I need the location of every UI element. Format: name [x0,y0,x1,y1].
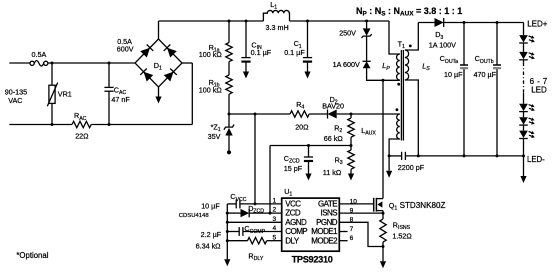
svg-text:0.1 µF: 0.1 µF [284,48,305,57]
svg-text:11 kΩ: 11 kΩ [323,168,342,177]
svg-text:VAC: VAC [8,96,22,105]
svg-text:DLY: DLY [285,236,300,245]
svg-text:20Ω: 20Ω [295,123,309,132]
svg-text:1A 600V: 1A 600V [333,60,360,69]
svg-text:5: 5 [273,234,277,241]
svg-text:2.2 µF: 2.2 µF [201,230,222,239]
svg-text:AGND: AGND [285,218,307,227]
svg-text:3.3 mH: 3.3 mH [266,23,289,32]
svg-text:TPS92310: TPS92310 [292,254,333,264]
svg-text:VCC: VCC [285,200,301,209]
svg-text:8: 8 [350,217,354,224]
svg-text:600V: 600V [117,45,134,54]
svg-text:1A 100V: 1A 100V [429,40,456,49]
svg-text:3: 3 [273,216,277,223]
svg-text:BAV20: BAV20 [322,101,344,110]
svg-text:MODE1: MODE1 [311,227,338,236]
svg-text:470 µF: 470 µF [474,70,497,79]
svg-text:4: 4 [273,225,277,232]
svg-text:1.52Ω: 1.52Ω [392,231,412,240]
svg-text:250V: 250V [339,29,356,38]
svg-text:66 kΩ: 66 kΩ [324,134,344,143]
svg-text:10: 10 [350,198,358,205]
svg-text:PGND: PGND [316,218,338,227]
svg-text:ISNS: ISNS [321,209,338,218]
svg-text:15 pF: 15 pF [284,164,303,173]
svg-text:STD3NK80Z: STD3NK80Z [400,201,446,210]
svg-text:47 nF: 47 nF [111,95,130,104]
svg-text:CDSU4148: CDSU4148 [179,213,210,219]
svg-text:0.1 µF: 0.1 µF [251,48,272,57]
svg-text:9: 9 [350,208,354,215]
svg-text:0.5A: 0.5A [32,50,47,59]
svg-text:100 kΩ: 100 kΩ [199,50,223,59]
svg-text:100 kΩ: 100 kΩ [199,86,223,95]
svg-text:22Ω: 22Ω [75,131,89,140]
svg-text:6.34 kΩ: 6.34 kΩ [196,241,222,250]
svg-text:7: 7 [350,226,354,233]
svg-text:1: 1 [273,198,277,205]
svg-text:2: 2 [273,207,277,214]
svg-text:2200 pF: 2200 pF [398,163,425,172]
svg-text:6: 6 [350,235,354,242]
svg-text:VR1: VR1 [58,89,72,98]
svg-text:10 µF: 10 µF [201,202,220,211]
svg-text:35V: 35V [208,132,221,141]
svg-text:MODE2: MODE2 [311,236,338,245]
svg-text:*Optional: *Optional [16,251,48,260]
svg-text:COMP: COMP [285,227,307,236]
svg-text:LED+: LED+ [527,20,548,29]
svg-text:10 µF: 10 µF [444,70,463,79]
svg-text:LED-: LED- [527,155,545,164]
svg-text:ZCD: ZCD [285,209,301,218]
svg-text:LED: LED [531,85,547,94]
svg-text:GATE: GATE [318,200,337,209]
